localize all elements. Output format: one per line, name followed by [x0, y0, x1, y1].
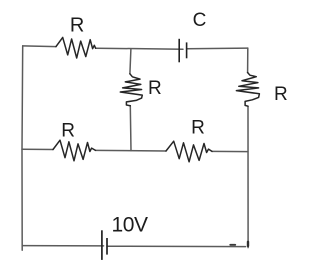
wire right vertical upper — [247, 48, 249, 72]
wire left vertical — [21, 46, 24, 250]
wire center vertical upper (node A stub) — [130, 49, 131, 74]
wire top-left horizontal — [23, 45, 56, 48]
svg-text:R: R — [70, 15, 84, 37]
svg-text:R: R — [191, 118, 205, 139]
svg-text:R: R — [148, 78, 162, 99]
wire middle rail center — [96, 149, 167, 152]
junction blob bottom-right corner — [247, 242, 249, 246]
wire middle rail left — [22, 148, 53, 150]
svg-text:C: C — [193, 10, 207, 31]
svg-text:R: R — [274, 84, 288, 105]
battery V1 positive plate (long) — [101, 230, 103, 260]
resistor R2 (center vertical) zigzag — [120, 74, 142, 106]
resistor R3 (right vertical) zigzag — [236, 73, 259, 107]
wire middle rail right — [212, 150, 248, 152]
wire right vertical lower — [247, 106, 249, 247]
resistor R4 (middle-left) zigzag — [53, 140, 96, 161]
battery V1 negative plate (short) — [106, 238, 108, 255]
resistor R1 (top) zigzag — [56, 37, 96, 58]
junction tick near bottom-right corner — [230, 244, 235, 246]
wire top middle horizontal — [96, 48, 183, 49]
svg-text:10V: 10V — [112, 214, 149, 237]
wire top-right horizontal — [187, 47, 248, 50]
wire center vertical lower — [129, 106, 132, 151]
svg-text:R: R — [61, 120, 75, 141]
capacitor C1 right plate — [186, 42, 188, 58]
capacitor C1 left plate — [178, 39, 180, 63]
wire bottom-left (to battery) — [22, 245, 103, 247]
wire bottom-right (from battery) — [107, 245, 246, 247]
resistor R5 (middle-right) zigzag — [166, 141, 212, 162]
